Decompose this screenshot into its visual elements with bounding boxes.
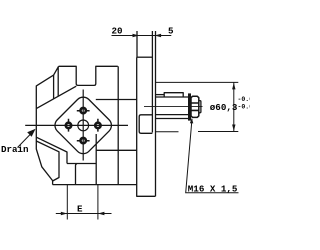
svg-text:5: 5 <box>168 26 174 37</box>
svg-text:E: E <box>77 204 83 215</box>
svg-text:M16 X 1,5: M16 X 1,5 <box>188 183 238 194</box>
svg-text:ø60,3: ø60,3 <box>210 102 238 113</box>
svg-text:20: 20 <box>112 26 123 37</box>
svg-text:Drain: Drain <box>1 144 29 155</box>
svg-text:-0.0: -0.0 <box>238 103 251 110</box>
svg-text:-0.0: -0.0 <box>238 96 251 103</box>
